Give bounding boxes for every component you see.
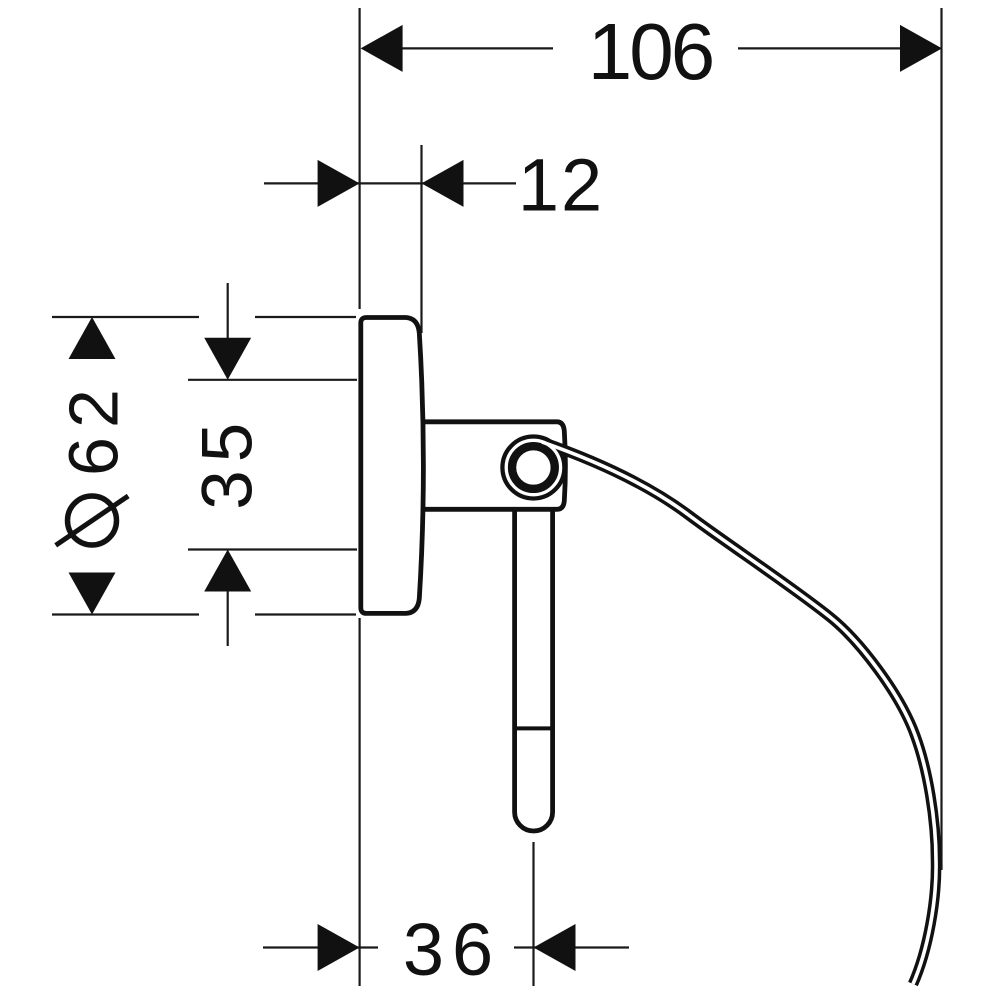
svg-text:12: 12 xyxy=(518,144,604,227)
svg-text:106: 106 xyxy=(588,7,712,96)
svg-text:35: 35 xyxy=(189,415,268,510)
svg-text:62: 62 xyxy=(55,380,133,476)
svg-text:36: 36 xyxy=(403,908,501,991)
